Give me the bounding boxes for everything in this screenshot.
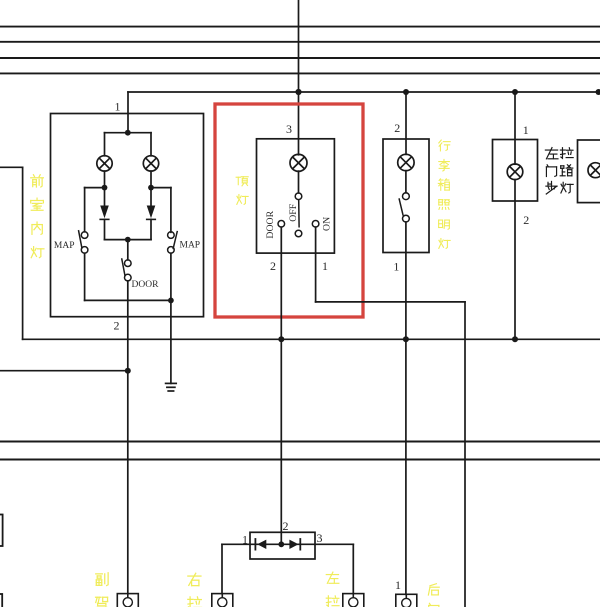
lamp: dome bulb (290, 154, 307, 171)
diode: left lamp diode D1 (104, 188, 106, 206)
svg-text:OFF: OFF (288, 203, 299, 222)
svg-text:1: 1 (393, 260, 399, 274)
svg-text:1: 1 (115, 100, 121, 114)
component box: luggage compartment lamp unit (383, 139, 429, 253)
node: junction feeder/right edge lamp (596, 89, 600, 95)
svg-text:2: 2 (114, 319, 120, 333)
lamp: front interior left bulb (97, 156, 112, 171)
node: junction DOOR wire / left horizontal (125, 368, 131, 374)
lamp: step lamp bulb (507, 164, 523, 180)
connector: left sliding door pin (343, 594, 364, 607)
node: junction luggage wire / rail A (403, 336, 409, 342)
wire: left lamp drop (104, 133, 106, 156)
switch: dome OFF contact (295, 230, 302, 237)
wire: top bus line 2 (0, 41, 600, 43)
svg-text:MAP: MAP (180, 240, 201, 250)
wire: luggage lamp to switch (405, 171, 407, 193)
label: left sliding door (左拉) yellow (326, 572, 339, 583)
svg-text:DOOR: DOOR (265, 210, 276, 238)
label: luggage lamp (行李箱照明灯) vertical yellow (439, 140, 450, 151)
wire: luggage switch output (405, 222, 407, 594)
switch: dome ON contact (312, 221, 319, 228)
wire: stub to right MAP switch (151, 187, 171, 189)
wire: left MAP to bottom rail (84, 253, 86, 300)
wire: stub to left MAP switch (85, 187, 105, 189)
wire: top rail between lamps (105, 132, 152, 134)
wire: below left lamp (104, 171, 106, 188)
node: T-junction inside front interior lamp (125, 130, 131, 136)
svg-text:2: 2 (283, 519, 289, 533)
wire: DOOR switch output down through box (127, 281, 129, 594)
wire: left edge vertical riser (22, 167, 24, 339)
switch: DOOR contacts (125, 260, 132, 267)
wire: ON output vertical to bottom edge (464, 302, 466, 607)
label: rear (后...) yellow (428, 584, 439, 595)
wire: right MAP drop (170, 188, 172, 233)
svg-text:MAP: MAP (54, 241, 75, 251)
svg-text:ON: ON (322, 217, 333, 231)
wire: door-ground rail (line A) (23, 338, 600, 340)
wire: left horizontal to DOOR wire (0, 370, 128, 372)
wire: top bus line 4 (0, 72, 600, 74)
svg-text:1: 1 (322, 259, 328, 273)
wire: feeder to step lamp (514, 92, 516, 164)
switch: right MAP contacts (168, 232, 175, 239)
connector: passenger door pin (117, 594, 138, 607)
wire: step lamp output (514, 180, 516, 340)
svg-text:1: 1 (395, 578, 401, 592)
connector: left edge partial connector (0, 594, 2, 607)
wire: top bus line 1 (0, 26, 600, 28)
component box: left sliding door step lamp (493, 140, 538, 202)
diode: right lamp diode D2 (150, 188, 152, 206)
component box: front interior lamp unit (51, 114, 204, 317)
ground symbol (166, 382, 177, 384)
svg-text:2: 2 (270, 259, 276, 273)
switch lever: right MAP (173, 232, 177, 249)
switch: left MAP contacts (81, 232, 88, 239)
wire: MAP common to chassis ground (170, 300, 172, 383)
label: front interior lamp (前室内灯) vertical yellow (31, 175, 44, 187)
node: junction right MAP / ground lead (168, 298, 174, 304)
wire: right lamp drop (150, 133, 152, 156)
label: passenger (副驾) yellow (96, 573, 108, 586)
node: junction step lamp wire / rail A (512, 336, 518, 342)
diode: left (pointing left) (257, 540, 266, 549)
svg-text:2: 2 (394, 121, 400, 135)
wire: drop to DOOR switch (127, 240, 129, 260)
wire: lower bus line 5 (0, 441, 600, 443)
wire: drop to front interior lamp box (127, 92, 129, 133)
switch: dome common contact (295, 193, 302, 200)
switch lever: DOOR (122, 259, 125, 275)
node: junction dome DOOR wire / rail A (278, 336, 284, 342)
wire: diode rail (250, 543, 315, 545)
wire: left MAP drop (84, 188, 86, 232)
component box: door-signal diode coupler (250, 532, 315, 559)
switch lever: luggage switch (399, 199, 403, 215)
wire: entry into diode box (280, 532, 282, 544)
wire: bottom rail of MAP switches (85, 299, 171, 301)
node: junction feeder/left door step lamp (512, 89, 518, 95)
diode: right (pointing right) (289, 540, 298, 549)
switch: dome DOOR contact (278, 221, 285, 228)
component box: right edge lamp (cut off) (578, 140, 600, 203)
wire: main vertical feed from top edge (298, 0, 300, 155)
label: right sliding door (右拉) yellow (188, 573, 201, 585)
connector: right sliding door pin (212, 594, 233, 607)
wire: below right lamp (150, 171, 152, 188)
highlight: red selection box around dome lamp (215, 104, 363, 317)
wire: right MAP to bottom rail (170, 253, 172, 300)
wire: dome lamp to switch common (298, 171, 300, 193)
node: left lamp branch (102, 185, 108, 191)
lamp: front interior right bulb (143, 156, 158, 171)
wire: diode box left lead (222, 543, 250, 545)
wire: feeder to luggage lamp (405, 92, 407, 154)
wire: lower bus line 6 (0, 459, 600, 461)
svg-text:3: 3 (286, 122, 292, 136)
connector: rear pin (396, 594, 417, 607)
wire: diode bottom rail (105, 239, 152, 241)
wire: dome DOOR contact output (280, 227, 282, 532)
node: diode box center junction (278, 541, 284, 547)
lamp: right edge bulb (588, 163, 600, 178)
wire: dome ON contact output (315, 227, 317, 302)
svg-text:1: 1 (523, 123, 529, 137)
label: left door step lamp (左拉门踏步灯) black (545, 148, 558, 159)
switch lever: dome (to OFF) (298, 200, 300, 227)
node: junction main feed / lamp feeder rail (295, 89, 301, 95)
node: right lamp branch (148, 185, 154, 191)
switch: luggage switch contacts (403, 193, 410, 200)
node: junction feeder/luggage lamp (403, 89, 409, 95)
component box: left edge partial box (0, 515, 3, 547)
node: center of diode rail (125, 237, 131, 243)
label: dome lamp (顶灯) vertical yellow (236, 177, 248, 186)
switch lever: left MAP (79, 231, 82, 248)
svg-text:3: 3 (317, 531, 323, 545)
wire: lamp feeder rail y=92 (128, 91, 600, 93)
lamp: luggage bulb (398, 154, 414, 170)
wire: top bus line 3 (0, 57, 600, 59)
wire: ON output horizontal run (316, 301, 465, 303)
wire: diode box right lead (315, 543, 353, 545)
wire: left edge entry horizontal (0, 166, 23, 168)
svg-text:2: 2 (523, 213, 529, 227)
component box: dome lamp unit (257, 139, 335, 253)
svg-text:DOOR: DOOR (132, 280, 160, 290)
